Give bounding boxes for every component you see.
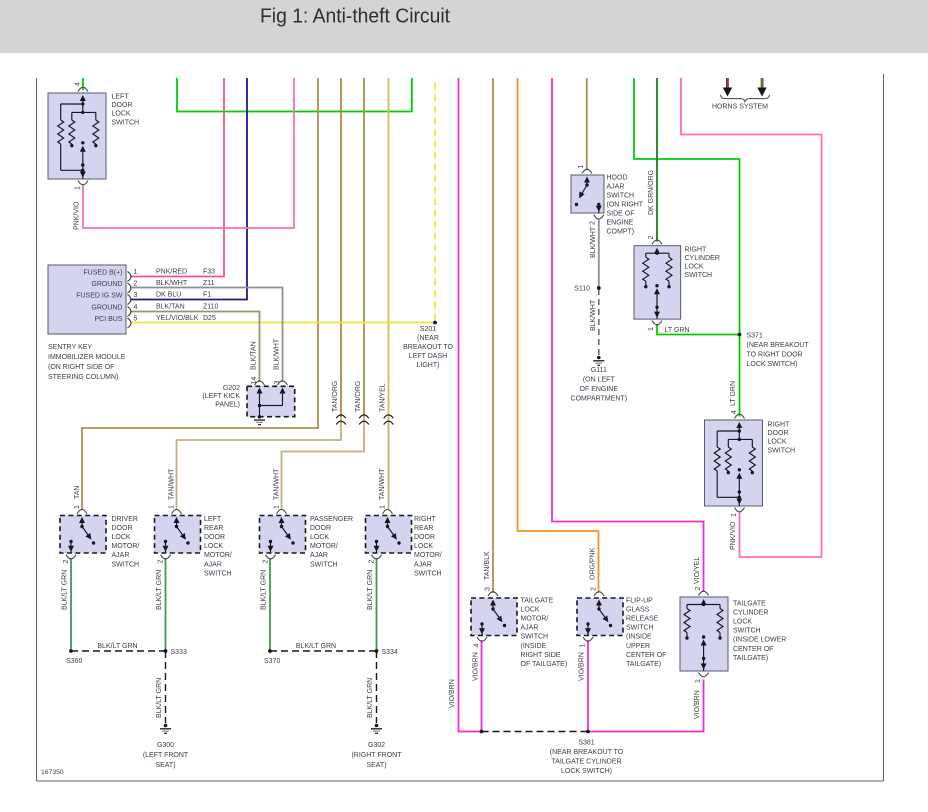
wire BLK/LT GRN (dashed) S370 to S334 bbox=[270, 643, 377, 651]
svg-text:YEL/VIO/BLK: YEL/VIO/BLK bbox=[156, 315, 199, 322]
wire BLK/LT GRN from right rear door motor pin 2 to S334 bbox=[367, 558, 377, 651]
svg-text:F33: F33 bbox=[203, 268, 215, 275]
svg-text:BLK/TAN: BLK/TAN bbox=[251, 341, 258, 370]
wire BLK/WHT (dashed) from S110 to G111 bbox=[590, 289, 599, 355]
svg-text:4: 4 bbox=[134, 304, 138, 311]
svg-text:SWITCH: SWITCH bbox=[521, 634, 549, 641]
svg-text:TAN/WHT: TAN/WHT bbox=[379, 468, 386, 500]
svg-text:TAN/ORG: TAN/ORG bbox=[332, 381, 339, 412]
svg-text:PNK/VIO: PNK/VIO bbox=[74, 201, 81, 230]
left door lock switch bbox=[48, 82, 139, 190]
right rear door lock motor/ajar switch bbox=[366, 505, 442, 577]
svg-text:1: 1 bbox=[580, 644, 587, 648]
left rear door lock motor/ajar switch bbox=[155, 505, 232, 577]
svg-text:(NEAR BREAKOUT TO: (NEAR BREAKOUT TO bbox=[550, 749, 624, 756]
svg-text:S371: S371 bbox=[747, 333, 763, 340]
right door lock switch bbox=[705, 410, 796, 517]
svg-text:HOOD: HOOD bbox=[607, 175, 628, 182]
svg-text:(ON LEFT: (ON LEFT bbox=[583, 377, 616, 384]
svg-text:G202: G202 bbox=[223, 385, 240, 392]
figure number 167350 bbox=[41, 769, 64, 776]
wire TAN/ORG to left rear door lock motor (TAN/WHT below connector) bbox=[169, 78, 342, 510]
wire BLK/TAN Z110 from sentry pin 4 to G202 pin 14 bbox=[130, 312, 260, 383]
svg-text:G111: G111 bbox=[591, 367, 607, 374]
svg-text:LOCK: LOCK bbox=[112, 534, 131, 541]
svg-text:S333: S333 bbox=[171, 649, 187, 656]
wire TAN to driver door lock motor pin 1 bbox=[74, 78, 318, 510]
svg-text:4: 4 bbox=[75, 82, 82, 86]
svg-text:CYLINDER: CYLINDER bbox=[685, 255, 720, 262]
title bar bbox=[0, 0, 928, 53]
svg-text:LEFT DASH: LEFT DASH bbox=[409, 353, 447, 360]
horns system arrows and brace bbox=[712, 78, 770, 111]
svg-text:TAILGATE): TAILGATE) bbox=[626, 661, 661, 668]
splice S110 bbox=[574, 286, 601, 293]
wire VIO/BRN from tailgate lock motor pin 4 to S381 bbox=[473, 640, 482, 732]
flip-up glass release switch bbox=[577, 587, 666, 668]
svg-text:LT GRN: LT GRN bbox=[665, 327, 690, 334]
svg-text:TAN/WHT: TAN/WHT bbox=[169, 468, 176, 500]
hood ajar switch bbox=[571, 165, 644, 236]
wire YEL/VIO/BLK D25 from sentry pin 5 to S201 bbox=[130, 322, 435, 324]
svg-text:MOTOR/: MOTOR/ bbox=[112, 543, 140, 550]
wire PNK/RED F33 to sentry pin 1 bbox=[130, 78, 224, 277]
wire TAN/BLK to tailgate lock motor pin 3 bbox=[484, 78, 493, 593]
wire ORG/PNK to flip-up glass release switch pin 2 bbox=[518, 78, 599, 593]
svg-text:G300: G300 bbox=[157, 742, 174, 749]
svg-text:COMPARTMENT): COMPARTMENT) bbox=[571, 396, 628, 403]
svg-text:UPPER: UPPER bbox=[626, 643, 650, 650]
svg-text:TAILGATE: TAILGATE bbox=[521, 598, 554, 605]
svg-text:VIO/BRN: VIO/BRN bbox=[579, 652, 586, 681]
wire BLK/LT GRN from left rear door motor pin 2 to S333 bbox=[156, 558, 166, 651]
svg-text:(NEAR: (NEAR bbox=[417, 335, 439, 342]
svg-text:3: 3 bbox=[485, 587, 492, 591]
svg-text:PCI BUS: PCI BUS bbox=[94, 316, 122, 323]
wire TAN to hood ajar switch pin 1 bbox=[586, 78, 588, 171]
inline connector on second TAN/ORG wire bbox=[359, 415, 369, 425]
wire TAN/ORG to passenger door lock motor (TAN/WHT below connector) bbox=[274, 78, 365, 510]
svg-text:SWITCH: SWITCH bbox=[685, 272, 713, 279]
svg-text:PNK/VIO: PNK/VIO bbox=[730, 521, 737, 550]
wire DK GRN/ORG to right cylinder lock switch pin 2 bbox=[648, 78, 657, 242]
splice S333 bbox=[164, 649, 187, 656]
svg-text:SIDE OF: SIDE OF bbox=[607, 211, 635, 218]
svg-text:2: 2 bbox=[157, 560, 164, 564]
svg-text:LEFT: LEFT bbox=[112, 94, 130, 101]
svg-text:BLK/LT GRN: BLK/LT GRN bbox=[261, 570, 268, 610]
svg-text:S381: S381 bbox=[578, 740, 594, 747]
svg-text:SENTRY KEY: SENTRY KEY bbox=[48, 344, 92, 351]
svg-text:TAN/ORG: TAN/ORG bbox=[355, 381, 362, 412]
svg-text:2: 2 bbox=[368, 560, 375, 564]
wire PNK/VIO from left door lock switch pin 1 bbox=[74, 78, 295, 230]
wire BLK/WHT Z11 from sentry pin 2 to G202 pin 3 bbox=[130, 288, 283, 383]
inline connector on TAN/ORG wire bbox=[336, 415, 346, 425]
svg-text:S360: S360 bbox=[66, 658, 82, 665]
svg-text:BLK/WHT: BLK/WHT bbox=[274, 338, 281, 370]
svg-text:LOCK SWITCH): LOCK SWITCH) bbox=[561, 768, 612, 775]
svg-text:LOCK: LOCK bbox=[521, 607, 540, 614]
ground symbol G202 bbox=[254, 415, 265, 425]
svg-text:SWITCH: SWITCH bbox=[733, 628, 761, 635]
svg-text:BLK/LT GRN: BLK/LT GRN bbox=[156, 678, 163, 718]
svg-text:(LEFT FRONT: (LEFT FRONT bbox=[143, 752, 189, 759]
svg-text:MOTOR/: MOTOR/ bbox=[521, 616, 549, 623]
svg-text:2: 2 bbox=[590, 221, 597, 225]
svg-text:S370: S370 bbox=[264, 658, 280, 665]
svg-text:SWITCH: SWITCH bbox=[204, 570, 232, 577]
svg-text:COMPT): COMPT) bbox=[607, 229, 635, 236]
svg-text:BLK/TAN: BLK/TAN bbox=[156, 303, 185, 310]
svg-text:SWITCH: SWITCH bbox=[607, 193, 635, 200]
svg-text:SWITCH: SWITCH bbox=[112, 561, 140, 568]
wire YEL (dashed) to splice S201 bbox=[434, 78, 436, 320]
svg-text:DOOR: DOOR bbox=[204, 534, 225, 541]
svg-text:VIO/BRN: VIO/BRN bbox=[694, 690, 701, 719]
svg-text:1: 1 bbox=[134, 269, 138, 276]
svg-text:FLIP-UP: FLIP-UP bbox=[626, 598, 653, 605]
splice S360 bbox=[66, 649, 82, 665]
svg-text:LEFT: LEFT bbox=[204, 516, 222, 523]
tailgate lock motor/ajar switch bbox=[471, 587, 567, 668]
svg-text:G302: G302 bbox=[368, 742, 385, 749]
svg-text:FUSED IG SW: FUSED IG SW bbox=[76, 292, 123, 299]
wire PNK/VIO from horns loop to right door lock switch pin 1 bbox=[681, 78, 822, 557]
svg-text:(INSIDE: (INSIDE bbox=[626, 634, 652, 641]
svg-text:1: 1 bbox=[74, 505, 81, 509]
svg-text:Z11: Z11 bbox=[203, 280, 215, 287]
wire LT GRN stub into left door lock switch pin 4 bbox=[82, 78, 84, 90]
wire BLK/LT GRN from driver door motor pin 2 to S360 bbox=[62, 558, 72, 651]
wire LT GRN trunk through S371 to right door lock switch pin 4 bbox=[634, 78, 740, 417]
svg-text:DOOR: DOOR bbox=[768, 430, 789, 437]
svg-text:DOOR: DOOR bbox=[310, 525, 331, 532]
svg-text:LOCK: LOCK bbox=[414, 543, 433, 550]
svg-text:1: 1 bbox=[379, 505, 386, 509]
svg-text:AJAR: AJAR bbox=[204, 561, 222, 568]
svg-text:(NEAR BREAKOUT: (NEAR BREAKOUT bbox=[747, 342, 810, 349]
svg-text:SEAT): SEAT) bbox=[366, 762, 386, 769]
svg-text:VIO/BRN: VIO/BRN bbox=[449, 679, 456, 708]
svg-text:BLK/WHT: BLK/WHT bbox=[590, 299, 597, 331]
svg-text:LOCK SWITCH): LOCK SWITCH) bbox=[747, 361, 798, 368]
svg-text:1: 1 bbox=[168, 505, 175, 509]
svg-text:BLK/WHT: BLK/WHT bbox=[156, 280, 188, 287]
svg-text:DOOR: DOOR bbox=[112, 525, 133, 532]
svg-text:DK BLU: DK BLU bbox=[156, 291, 181, 298]
svg-text:TAILGATE): TAILGATE) bbox=[733, 655, 768, 662]
svg-text:4: 4 bbox=[731, 410, 738, 414]
passenger door lock motor/ajar switch bbox=[260, 505, 354, 568]
svg-text:2: 2 bbox=[591, 587, 598, 591]
wire TAN/YEL to right rear door lock motor (TAN/WHT below connector) bbox=[379, 78, 389, 510]
svg-text:2: 2 bbox=[648, 236, 655, 240]
svg-text:1: 1 bbox=[695, 679, 702, 683]
svg-text:S201: S201 bbox=[420, 326, 436, 333]
driver door lock motor/ajar switch bbox=[60, 505, 139, 568]
svg-text:TAILGATE: TAILGATE bbox=[733, 601, 766, 608]
svg-text:SWITCH: SWITCH bbox=[626, 625, 654, 632]
svg-text:Z110: Z110 bbox=[203, 303, 219, 310]
svg-text:BLK/LT GRN: BLK/LT GRN bbox=[156, 570, 163, 610]
splice S201 (near breakout to left dash light) bbox=[403, 321, 453, 369]
svg-text:AJAR: AJAR bbox=[112, 552, 130, 559]
svg-text:OF ENGINE: OF ENGINE bbox=[580, 386, 619, 393]
svg-text:SWITCH: SWITCH bbox=[414, 570, 442, 577]
inline connector on TAN/YEL wire bbox=[384, 415, 394, 425]
svg-text:(RIGHT FRONT: (RIGHT FRONT bbox=[351, 752, 402, 759]
svg-text:TAN/WHT: TAN/WHT bbox=[274, 468, 281, 500]
wire BLK/WHT from hood ajar switch pin 2 to S110 bbox=[590, 220, 599, 288]
ground G300 (left front seat) bbox=[143, 724, 189, 769]
svg-text:LOCK: LOCK bbox=[112, 111, 131, 118]
svg-text:MOTOR/: MOTOR/ bbox=[204, 552, 232, 559]
svg-text:LT GRN: LT GRN bbox=[730, 381, 737, 406]
svg-text:TAN: TAN bbox=[74, 486, 81, 499]
wire VIO/BRN from flip-up release switch pin 1 to S381 bbox=[579, 640, 589, 732]
svg-text:2: 2 bbox=[134, 281, 138, 288]
svg-text:CYLINDER: CYLINDER bbox=[733, 610, 768, 617]
svg-text:3: 3 bbox=[134, 292, 138, 299]
svg-text:HORNS SYSTEM: HORNS SYSTEM bbox=[712, 104, 768, 111]
svg-text:DRIVER: DRIVER bbox=[112, 516, 138, 523]
svg-text:REAR: REAR bbox=[414, 525, 433, 532]
svg-text:1: 1 bbox=[731, 513, 738, 517]
svg-text:RIGHT: RIGHT bbox=[768, 422, 791, 429]
svg-text:2: 2 bbox=[63, 560, 70, 564]
svg-text:F1: F1 bbox=[203, 291, 211, 298]
tailgate cylinder lock switch bbox=[680, 587, 786, 684]
wire LT GRN jumper (off-page U) bbox=[177, 78, 412, 112]
svg-text:SWITCH: SWITCH bbox=[310, 561, 338, 568]
svg-text:(LEFT KICK: (LEFT KICK bbox=[202, 393, 240, 400]
svg-text:REAR: REAR bbox=[204, 525, 223, 532]
svg-text:4: 4 bbox=[474, 644, 481, 648]
svg-text:MOTOR/: MOTOR/ bbox=[310, 543, 338, 550]
svg-text:VIO/YEL: VIO/YEL bbox=[694, 557, 701, 584]
svg-text:BLK/LT GRN: BLK/LT GRN bbox=[296, 643, 336, 650]
ground G302 (right front seat) bbox=[351, 724, 402, 769]
svg-text:AJAR: AJAR bbox=[414, 561, 432, 568]
wire VIO/BRN from S381 to tailgate cylinder lock switch pin 1 bbox=[588, 680, 704, 732]
diagram frame border bbox=[37, 74, 884, 781]
svg-text:IMMOBILIZER MODULE: IMMOBILIZER MODULE bbox=[48, 354, 126, 361]
svg-text:167350: 167350 bbox=[41, 769, 64, 776]
svg-text:(ON RIGHT: (ON RIGHT bbox=[607, 202, 644, 209]
ground G111 (on left of engine compartment) bbox=[571, 356, 628, 403]
svg-text:OF TAILGATE): OF TAILGATE) bbox=[521, 661, 568, 668]
svg-text:BLK/LT GRN: BLK/LT GRN bbox=[62, 570, 69, 610]
wire BLK/LT GRN from passenger door motor pin 2 to S370 bbox=[261, 558, 271, 651]
svg-text:CENTER OF: CENTER OF bbox=[626, 652, 666, 659]
svg-text:Fig 1: Anti-theft Circuit: Fig 1: Anti-theft Circuit bbox=[260, 5, 450, 28]
wire VIO/BRN left branch to splice S381 bbox=[449, 78, 482, 732]
wire DK BLU F1 to sentry pin 3 bbox=[130, 78, 247, 300]
svg-text:BLK/LT GRN: BLK/LT GRN bbox=[97, 643, 137, 650]
svg-text:TAN/YEL: TAN/YEL bbox=[380, 383, 387, 412]
wire BLK/LT GRN (dashed) S360 to S333 bbox=[71, 643, 166, 651]
svg-text:TO RIGHT DOOR: TO RIGHT DOOR bbox=[747, 352, 803, 359]
svg-text:2: 2 bbox=[695, 587, 702, 591]
splice S381 (near breakout to tailgate cylinder lock switch) bbox=[480, 730, 624, 775]
svg-text:BLK/LT GRN: BLK/LT GRN bbox=[367, 570, 374, 610]
svg-text:BLK/WHT: BLK/WHT bbox=[590, 226, 597, 258]
svg-text:RIGHT: RIGHT bbox=[685, 246, 708, 253]
svg-text:(INSIDE LOWER: (INSIDE LOWER bbox=[733, 637, 786, 644]
svg-text:PANEL): PANEL) bbox=[215, 401, 240, 408]
wire BLK/LT GRN (dashed) S333 to G300 bbox=[156, 651, 166, 723]
svg-text:GROUND: GROUND bbox=[91, 304, 122, 311]
svg-text:3: 3 bbox=[274, 381, 281, 385]
svg-text:BLK/LT GRN: BLK/LT GRN bbox=[367, 678, 374, 718]
svg-text:AJAR: AJAR bbox=[310, 552, 328, 559]
svg-text:FUSED B(+): FUSED B(+) bbox=[83, 269, 122, 276]
splice S334 bbox=[375, 649, 398, 656]
svg-text:CENTER OF: CENTER OF bbox=[733, 646, 773, 653]
wire VIO/YEL to tailgate cylinder lock switch pin 2 bbox=[552, 78, 704, 592]
svg-text:1: 1 bbox=[648, 327, 655, 331]
svg-text:RIGHT: RIGHT bbox=[414, 516, 437, 523]
svg-text:LOCK: LOCK bbox=[685, 264, 704, 271]
svg-text:PASSENGER: PASSENGER bbox=[310, 516, 353, 523]
svg-text:1: 1 bbox=[273, 505, 280, 509]
svg-text:GROUND: GROUND bbox=[91, 281, 122, 288]
svg-text:SWITCH: SWITCH bbox=[112, 119, 140, 126]
svg-text:BREAKOUT TO: BREAKOUT TO bbox=[403, 344, 453, 351]
splice S371 (near breakout to right door lock switch) bbox=[738, 333, 810, 369]
svg-text:AJAR: AJAR bbox=[607, 184, 625, 191]
wire BLK/LT GRN (dashed) S334 to G302 bbox=[367, 651, 377, 723]
svg-text:DOOR: DOOR bbox=[112, 102, 133, 109]
svg-text:D25: D25 bbox=[203, 315, 216, 322]
svg-text:LOCK: LOCK bbox=[310, 534, 329, 541]
svg-text:TAN/BLK: TAN/BLK bbox=[484, 551, 491, 580]
svg-text:GLASS: GLASS bbox=[626, 607, 650, 614]
svg-text:S110: S110 bbox=[574, 286, 590, 293]
svg-text:PNK/RED: PNK/RED bbox=[156, 268, 187, 275]
svg-text:1: 1 bbox=[75, 186, 82, 190]
svg-text:DK GRN/ORG: DK GRN/ORG bbox=[648, 170, 655, 215]
ground connector G202 (left kick panel) bbox=[202, 377, 294, 417]
svg-text:STEERING COLUMN): STEERING COLUMN) bbox=[48, 374, 118, 381]
splice S370 bbox=[264, 649, 280, 665]
sentry key immobilizer module U1 bbox=[48, 265, 219, 381]
svg-text:RELEASE: RELEASE bbox=[626, 616, 659, 623]
svg-text:VIO/BRN: VIO/BRN bbox=[473, 652, 480, 681]
svg-text:2: 2 bbox=[262, 560, 269, 564]
svg-text:AJAR: AJAR bbox=[521, 625, 539, 632]
svg-text:14: 14 bbox=[251, 377, 258, 385]
svg-text:DOOR: DOOR bbox=[414, 534, 435, 541]
svg-text:LOCK: LOCK bbox=[204, 543, 223, 550]
svg-text:LOCK: LOCK bbox=[768, 439, 787, 446]
svg-text:SEAT): SEAT) bbox=[155, 762, 175, 769]
svg-text:(INSIDE: (INSIDE bbox=[521, 643, 547, 650]
svg-text:SWITCH: SWITCH bbox=[768, 447, 796, 454]
svg-text:ENGINE: ENGINE bbox=[607, 220, 634, 227]
svg-text:MOTOR/: MOTOR/ bbox=[414, 552, 442, 559]
svg-text:LOCK: LOCK bbox=[733, 619, 752, 626]
svg-text:5: 5 bbox=[134, 316, 138, 323]
svg-text:RIGHT SIDE: RIGHT SIDE bbox=[521, 652, 561, 659]
svg-text:TAILGATE CYLINDER: TAILGATE CYLINDER bbox=[551, 759, 621, 766]
svg-text:ORG/PNK: ORG/PNK bbox=[590, 547, 597, 580]
right cylinder lock switch bbox=[634, 236, 720, 332]
svg-text:(ON RIGHT SIDE OF: (ON RIGHT SIDE OF bbox=[48, 364, 114, 371]
wire LT GRN from right cylinder lock switch pin 1 to S371 bbox=[657, 324, 740, 335]
svg-text:1: 1 bbox=[578, 165, 585, 169]
svg-text:LIGHT): LIGHT) bbox=[417, 362, 440, 369]
svg-text:S334: S334 bbox=[382, 649, 398, 656]
wire (dashed) S381 breakout segment bbox=[482, 731, 589, 733]
